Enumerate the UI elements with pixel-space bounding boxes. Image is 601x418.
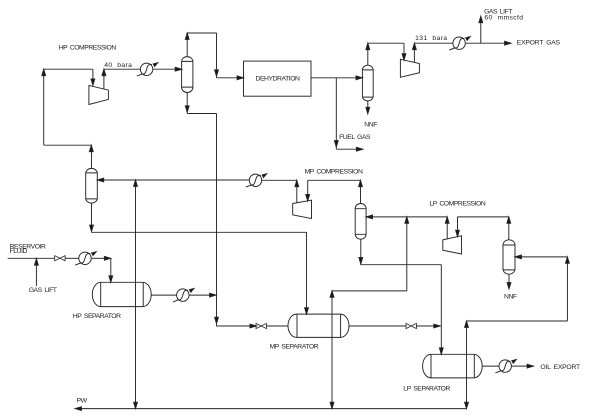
wire LP discharge to MP suction scrubber (366, 215, 447, 219)
cooler MP discharge (246, 174, 267, 187)
wire reservoir fluid feed line (8, 257, 55, 259)
compressor LP COMPRESSION (443, 236, 462, 254)
wire MP discharge to HP suction scrubber (97, 178, 249, 182)
wire fuel gas stub (336, 147, 363, 151)
wire drain offset (187, 113, 216, 115)
wire MP separator gas riser join (405, 217, 409, 291)
wire HP liquid letdown drop (215, 114, 219, 327)
wire LP separator gas riser (465, 321, 469, 354)
wire 131 bara line (414, 42, 453, 44)
wire LP compressor inlet header (458, 216, 509, 218)
wire HP compressor inlet header (44, 68, 93, 70)
unit DEHYDRATION box (244, 61, 312, 96)
svg-text:60 mmscfd: 60 mmscfd (484, 15, 523, 22)
wire into dehydration (217, 76, 244, 80)
wire MP gas horizontal (332, 290, 407, 292)
wire scrubber NNF drain (366, 101, 370, 114)
svg-text:FLUID: FLUID (10, 248, 28, 255)
wire cooler to HP separator (91, 256, 111, 260)
cooler feed (75, 252, 96, 265)
wire drain to LP separator header (361, 264, 442, 266)
vessel HP SEPARATOR (92, 282, 151, 306)
wire choke to feed cooler (65, 257, 79, 259)
wire drain header to MP separator (92, 231, 307, 233)
svg-text:40 bara: 40 bara (104, 62, 132, 69)
wire HP oil to letdown (189, 293, 216, 297)
wire drop into LP separator top (439, 265, 443, 355)
valve MP separator feed (256, 323, 266, 328)
svg-text:DEHYDRATION: DEHYDRATION (256, 76, 301, 83)
svg-text:131 bara: 131 bara (415, 35, 447, 42)
cooler export gas (449, 37, 470, 50)
wire HP compressor discharge riser (102, 69, 106, 89)
wire export compressor discharge riser (413, 43, 417, 62)
svg-text:GAS LIFT: GAS LIFT (29, 287, 57, 294)
wire gas lift injection riser (35, 258, 39, 286)
wire drop into HP separator top (109, 258, 113, 282)
wire gas lift offtake riser (479, 16, 483, 43)
wire dehydration outlet (311, 76, 362, 80)
svg-text:OIL EXPORT: OIL EXPORT (540, 364, 580, 371)
wire oil export arrow (511, 364, 533, 368)
wire LP sep gas into LP suction scrubber (515, 255, 567, 259)
wire MP separator gas riser (330, 291, 334, 314)
wire LP suction scrubber NNF drain (507, 274, 511, 289)
vessel export compressor suction scrubber (362, 65, 373, 101)
vessel HP discharge scrubber (182, 57, 193, 93)
wire MP compressor inlet header (308, 179, 361, 181)
wire MP compressor discharge riser (295, 180, 299, 203)
wire HP discharge scrubber drain (185, 93, 189, 114)
svg-text:FUEL GAS: FUEL GAS (339, 134, 371, 141)
cooler oil export (495, 360, 516, 373)
wire LP suction scrubber gas riser (507, 217, 511, 240)
wire HP separator gas riser (134, 180, 138, 282)
cooler HP discharge (137, 63, 158, 76)
wire HP separator water leg (134, 307, 138, 409)
wire export compressor inlet header (368, 42, 404, 44)
wire MP suction scrubber gas riser (359, 180, 363, 203)
vessel LP SEPARATOR (423, 354, 483, 378)
wire MP separator water leg (330, 337, 334, 408)
svg-text:HP COMPRESSION: HP COMPRESSION (59, 44, 117, 51)
wire cooler to HP discharge scrubber (153, 67, 182, 71)
wire export gas line (465, 41, 511, 45)
compressor MP COMPRESSION (293, 200, 312, 218)
wire LP separator water leg (465, 378, 469, 409)
wire LP gas horizontal (467, 320, 568, 322)
wire MP discharge to cooler (261, 179, 296, 181)
wire scrubber gas riser to export compressor (366, 43, 370, 65)
vessel HP suction scrubber (86, 168, 98, 203)
compressor HP COMPRESSION (89, 85, 109, 104)
wire valve to MP separator (266, 325, 288, 327)
wire PW header (75, 407, 467, 411)
valve choke reservoir fluid (55, 256, 65, 261)
wire export compressor inlet drop (402, 43, 406, 60)
cooler HP oil (173, 289, 194, 302)
wire MP suction scrubber drain (359, 239, 363, 265)
wire HP suction scrubber gas riser (89, 145, 93, 168)
wire LP separator oil outlet (482, 365, 499, 367)
svg-text:MP COMPRESSION: MP COMPRESSION (305, 169, 363, 176)
svg-text:NNF: NNF (504, 294, 517, 301)
wire MP oil to LP separator header (416, 324, 440, 328)
wire MP compressor inlet drop (306, 180, 310, 201)
wire fuel gas branch drop (334, 78, 338, 149)
wire drop into MP separator top (305, 232, 309, 314)
wire LP compressor discharge riser (445, 217, 449, 239)
svg-text:EXPORT GAS: EXPORT GAS (517, 39, 561, 46)
wire recycle top horizontal (44, 144, 92, 146)
wire 40 bara discharge line (104, 68, 141, 70)
svg-text:PW: PW (77, 397, 88, 404)
wire letdown to MP separator valve (217, 324, 257, 328)
compressor EXPORT (400, 59, 419, 77)
wire top horizontal to dehydration (187, 32, 216, 34)
wire HP suction scrubber drain (90, 203, 94, 232)
wire scrubber top riser (185, 33, 189, 57)
wire LP separator internal passage (466, 354, 468, 378)
wire HP separator oil outlet (151, 294, 177, 296)
wire recycle left vertical (42, 69, 46, 145)
wire HP compressor inlet drop (91, 69, 95, 85)
valve MP oil letdown (406, 323, 416, 328)
svg-text:MP SEPARATOR: MP SEPARATOR (270, 344, 319, 351)
wire MP separator internal passage (331, 314, 333, 337)
vessel LP suction scrubber (503, 240, 515, 274)
wire HP separator internal passage (135, 282, 137, 306)
svg-text:LP COMPRESSION: LP COMPRESSION (429, 201, 486, 208)
vessel MP SEPARATOR (288, 314, 349, 337)
wire LP gas riser right (566, 257, 570, 321)
wire MP separator oil outlet (349, 325, 406, 327)
svg-text:HP SEPARATOR: HP SEPARATOR (73, 313, 121, 320)
wire dehydration feed drop (215, 33, 219, 78)
wire LP compressor inlet drop (456, 217, 460, 237)
svg-text:LP SEPARATOR: LP SEPARATOR (403, 386, 450, 393)
vessel MP suction scrubber (355, 204, 366, 240)
svg-text:NNF: NNF (364, 121, 377, 128)
